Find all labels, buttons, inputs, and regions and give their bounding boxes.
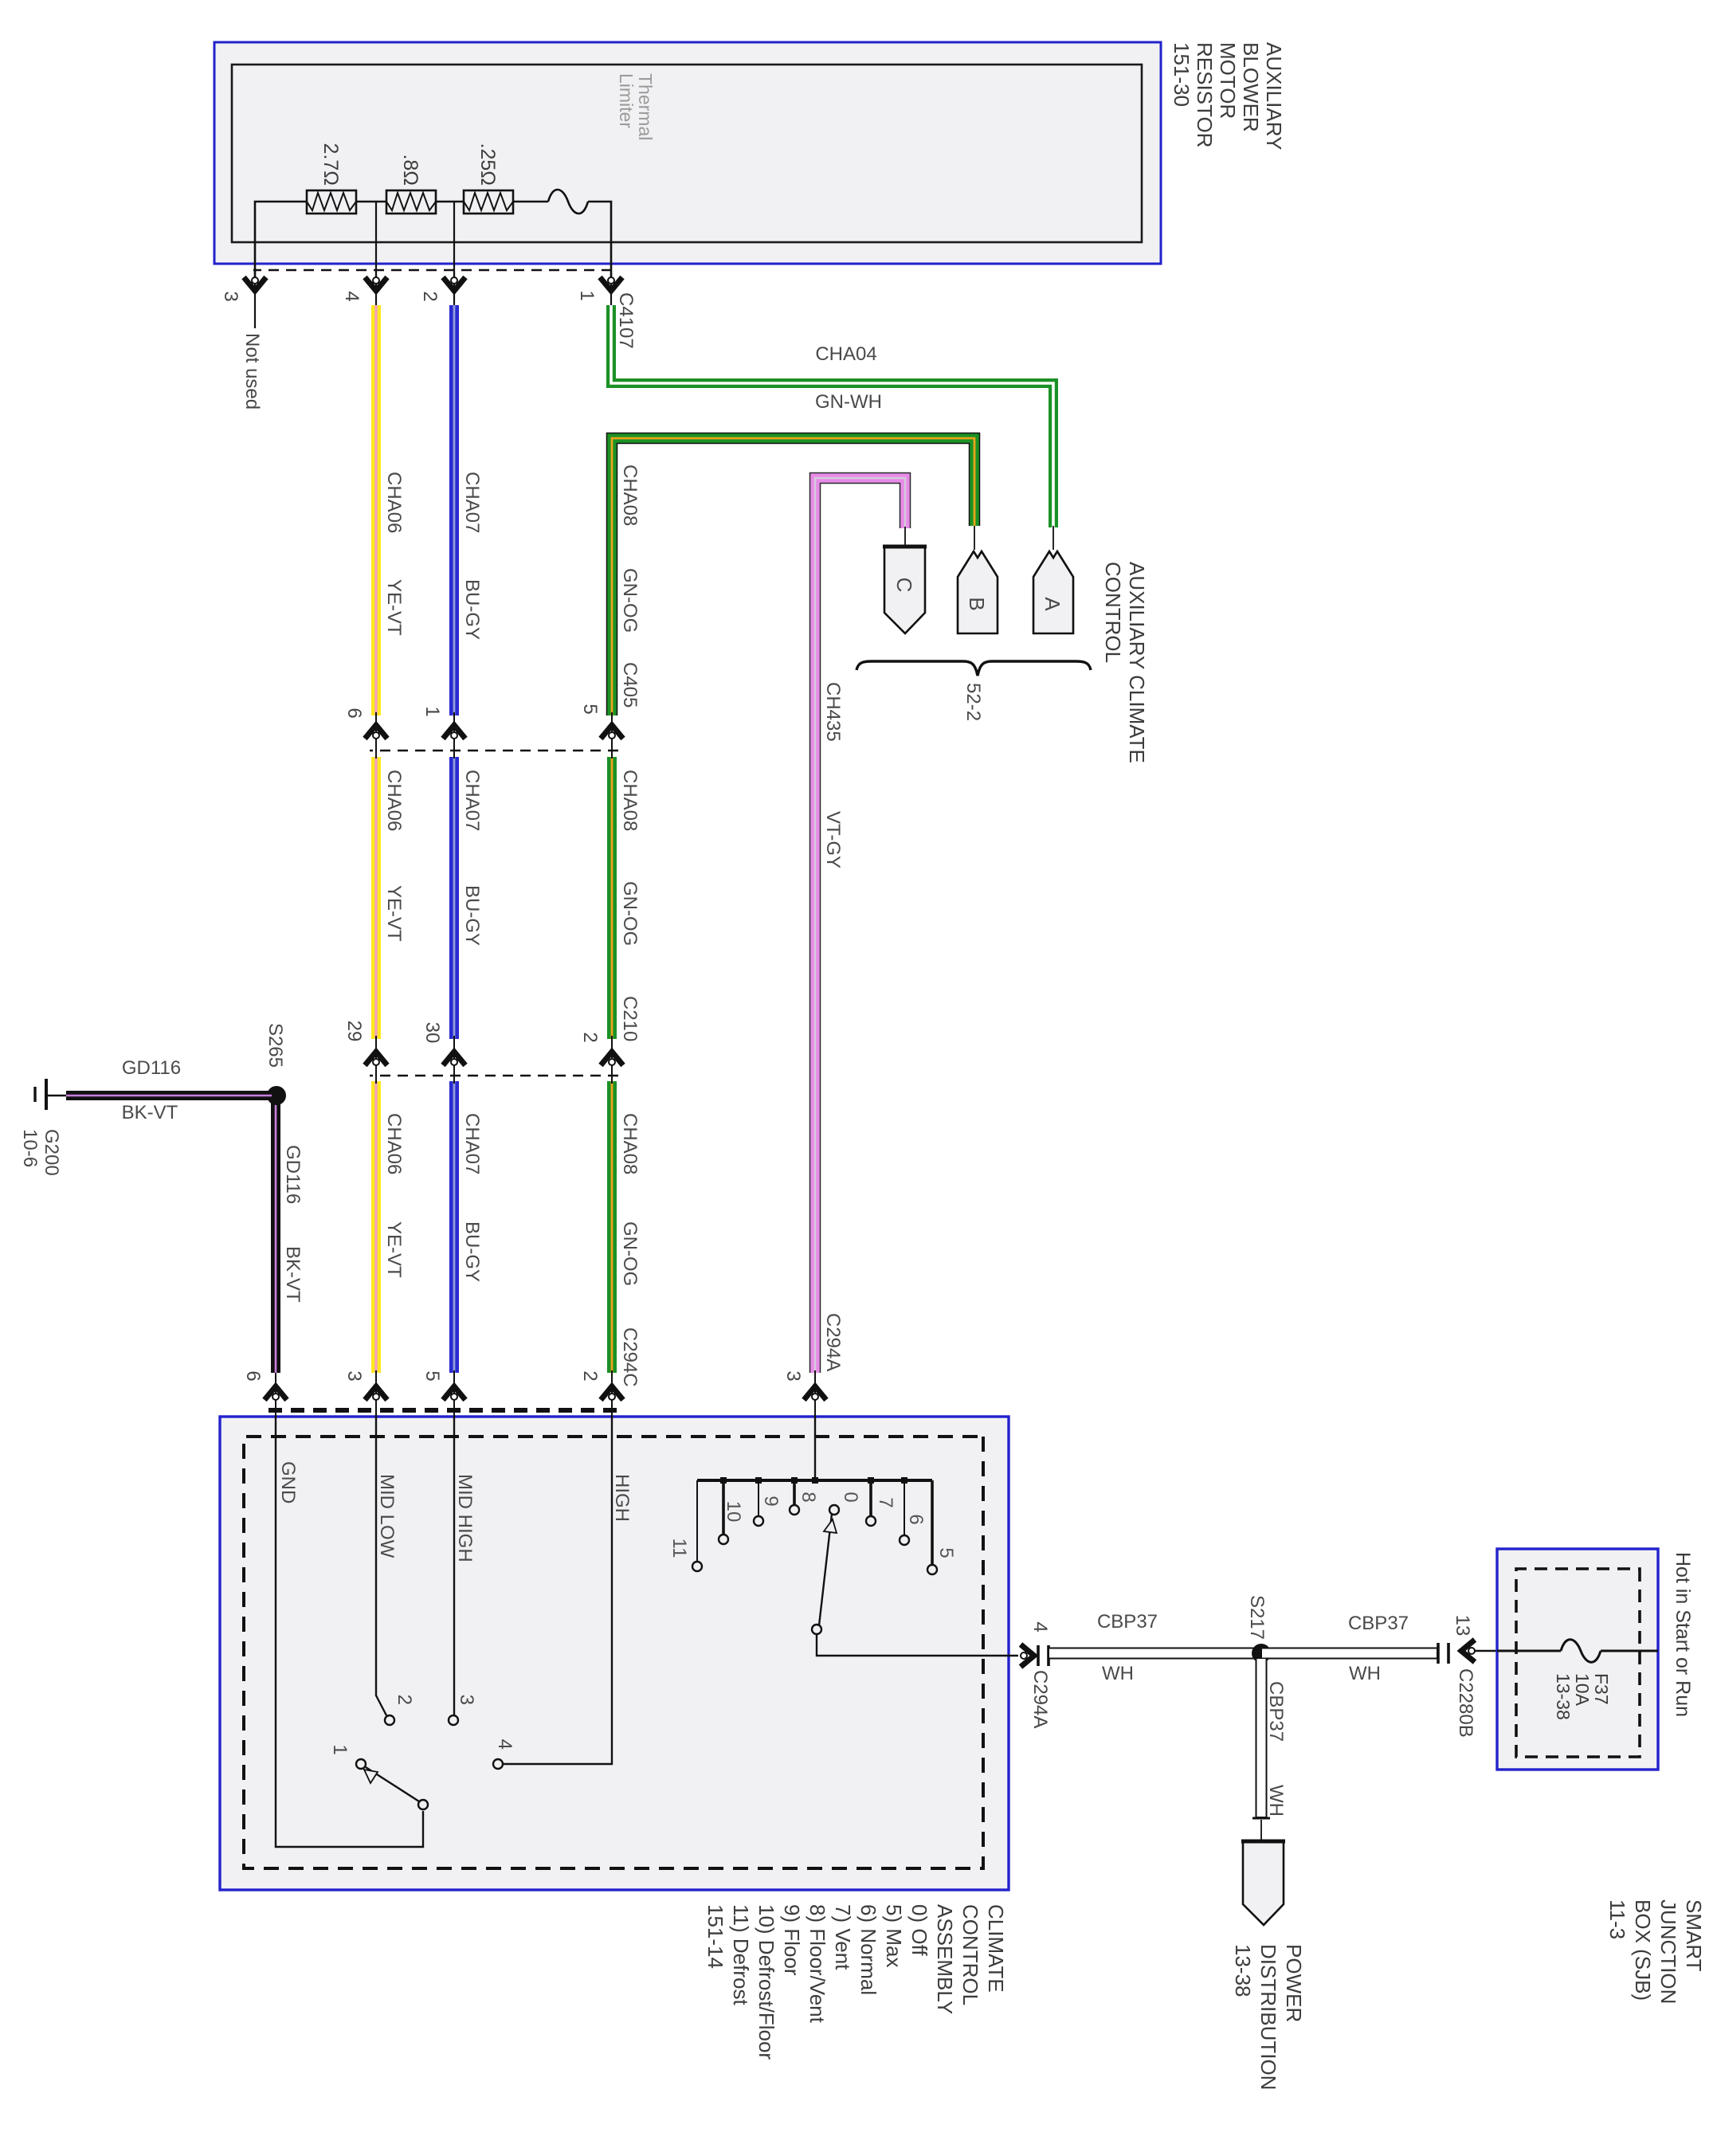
svg-text:CHA07: CHA07 <box>461 1113 483 1174</box>
C2280B pin 13 arrow <box>1461 1640 1475 1662</box>
resistor inner housing box <box>232 65 1142 242</box>
position 9 stub <box>758 1480 759 1515</box>
svg-text:0) Off: 0) Off <box>907 1904 931 1956</box>
svg-text:5: 5 <box>935 1547 957 1558</box>
wire CHA04 GN-WH from pin1 up to connector A <box>611 305 1053 527</box>
wire: tap to pin 2 <box>453 202 455 280</box>
wire CH435 VT-GY to connector C and climate control <box>815 478 905 1373</box>
svg-text:9: 9 <box>760 1495 782 1506</box>
svg-text:.8Ω: .8Ω <box>399 154 421 186</box>
svg-text:GN-WH: GN-WH <box>815 391 882 413</box>
auxiliary blower motor resistor box (blue outline) <box>214 42 1161 264</box>
svg-text:YE-VT: YE-VT <box>383 885 405 942</box>
wire stub pin 2 <box>453 272 455 308</box>
svg-text:2: 2 <box>419 291 441 301</box>
svg-text:5: 5 <box>421 1370 443 1381</box>
svg-text:CBP37: CBP37 <box>1348 1613 1409 1634</box>
wire MID HIGH from pin 5 <box>453 1415 455 1715</box>
svg-text:MID LOW: MID LOW <box>376 1474 398 1558</box>
legend CLIMATE CONTROL ASSEMBLY <box>704 1904 1008 2060</box>
svg-text:CHA06: CHA06 <box>383 1113 405 1174</box>
svg-text:CHA08: CHA08 <box>619 770 641 831</box>
svg-text:Not used: Not used <box>241 333 263 410</box>
svg-text:.25Ω: .25Ω <box>476 143 499 186</box>
connector C210 dashed boundary <box>370 1075 618 1077</box>
svg-text:YE-VT: YE-VT <box>383 579 405 636</box>
wire CHA06 YE-VT segment 3 <box>371 1081 381 1373</box>
svg-text:CHA06: CHA06 <box>383 472 405 533</box>
svg-text:9) Floor: 9) Floor <box>780 1904 804 1976</box>
C210 pin 30 arrow <box>443 1052 465 1065</box>
wire link to connector C <box>904 527 906 548</box>
svg-text:CLIMATE: CLIMATE <box>984 1904 1008 1993</box>
fuse F37 element <box>1561 1640 1601 1663</box>
wire inside SJB above fuse <box>1601 1650 1658 1652</box>
svg-text:B: B <box>965 597 989 610</box>
smart junction box (blue outline) <box>1497 1549 1658 1770</box>
C405 pin 6 arrow <box>365 725 387 739</box>
svg-text:CHA08: CHA08 <box>619 1113 641 1174</box>
svg-text:10: 10 <box>723 1501 744 1523</box>
svg-text:AUXILIARY: AUXILIARY <box>1262 42 1286 150</box>
climate control assembly box (blue outline) <box>220 1417 1009 1890</box>
mode switch arm <box>366 1767 419 1801</box>
svg-text:ASSEMBLY: ASSEMBLY <box>933 1904 957 2014</box>
svg-text:3: 3 <box>220 291 241 301</box>
wire joint blue at C210 <box>453 1036 455 1084</box>
label SMART JUNCTION BOX (SJB) 11-3 <box>1605 1899 1706 2004</box>
svg-text:3: 3 <box>343 1370 365 1381</box>
connector B <box>958 551 998 633</box>
svg-text:C: C <box>892 578 916 593</box>
svg-text:2: 2 <box>394 1695 415 1705</box>
label CHA06 YE-VT seg1 <box>383 465 844 1387</box>
svg-text:CH435: CH435 <box>822 682 844 742</box>
svg-text:5) Max: 5) Max <box>882 1904 906 1967</box>
svg-text:BK-VT: BK-VT <box>282 1246 304 1303</box>
svg-text:6) Normal: 6) Normal <box>856 1904 880 1995</box>
wire joint yellow at C210 <box>375 1036 377 1084</box>
svg-text:30: 30 <box>421 1022 443 1044</box>
svg-text:DISTRIBUTION: DISTRIBUTION <box>1256 1944 1280 2090</box>
svg-text:CBP37: CBP37 <box>1097 1611 1158 1633</box>
C210 pin 29 arrow <box>365 1052 387 1065</box>
wire MID LOW from pin 3 <box>376 1415 386 1715</box>
mode switch contact 1 <box>356 1759 366 1769</box>
wire CHA07 BU-GY segment 1 <box>449 305 459 715</box>
svg-text:MOTOR: MOTOR <box>1216 42 1240 119</box>
label F37 10A 13-38 <box>1553 1673 1612 1720</box>
svg-text:Limiter: Limiter <box>616 73 637 128</box>
svg-text:BU-GY: BU-GY <box>461 579 483 640</box>
svg-text:10A: 10A <box>1572 1673 1593 1707</box>
resistor 2.7 ohm <box>307 190 356 214</box>
svg-text:WH: WH <box>1349 1663 1381 1684</box>
connector face bars at C2280B <box>1437 1643 1440 1664</box>
svg-text:MID HIGH: MID HIGH <box>454 1474 476 1562</box>
svg-text:YE-VT: YE-VT <box>383 1221 405 1278</box>
svg-text:2.7Ω: 2.7Ω <box>319 143 342 186</box>
wire CHA06 YE-VT segment 2 <box>371 757 381 1039</box>
wire CBP37 WH branch from S217 to power distribution <box>1256 1658 1268 1818</box>
svg-text:CBP37: CBP37 <box>1265 1681 1287 1742</box>
svg-text:GN-OG: GN-OG <box>619 1221 641 1286</box>
climate control inner dashed box <box>244 1437 983 1868</box>
svg-text:CHA07: CHA07 <box>461 770 483 831</box>
position 5 stub <box>931 1480 934 1564</box>
svg-text:VT-GY: VT-GY <box>822 811 844 868</box>
wire: tap to pin 4 <box>375 202 377 280</box>
position 11 stub <box>696 1480 698 1561</box>
svg-text:CONTROL: CONTROL <box>1101 562 1125 663</box>
svg-text:8) Floor/Vent: 8) Floor/Vent <box>806 1904 829 2024</box>
fan switch feed from violet wire <box>814 1415 816 1480</box>
wire link to connector B <box>974 526 975 550</box>
svg-text:S265: S265 <box>265 1023 286 1068</box>
wire from SJB to arrow <box>1474 1650 1497 1652</box>
svg-text:1: 1 <box>576 290 598 300</box>
wire CHA06 YE-VT segment 1 <box>371 305 381 715</box>
wiper output wire to pin 4 <box>817 1634 1018 1656</box>
svg-text:BU-GY: BU-GY <box>461 1221 483 1282</box>
svg-text:6: 6 <box>905 1514 927 1524</box>
svg-text:1: 1 <box>329 1744 351 1754</box>
splice S265 <box>267 1086 286 1105</box>
wire joint yellow at C294C <box>375 1370 377 1415</box>
label POWER DISTRIBUTION 13-38 <box>1231 1944 1306 2090</box>
wire stub pin 4 <box>375 272 377 308</box>
wire CHA07 BU-GY segment 3 <box>449 1081 459 1373</box>
svg-text:3: 3 <box>456 1695 477 1705</box>
svg-text:BK-VT: BK-VT <box>122 1102 178 1123</box>
svg-text:4: 4 <box>341 291 363 301</box>
SJB inner dashed box <box>1516 1569 1640 1757</box>
svg-text:6: 6 <box>343 708 365 718</box>
wire joint green at C294C <box>611 1370 613 1415</box>
svg-text:GD116: GD116 <box>282 1145 304 1204</box>
splice S217 <box>1252 1644 1271 1663</box>
svg-text:BOX (SJB): BOX (SJB) <box>1631 1899 1655 2001</box>
svg-text:7) Vent: 7) Vent <box>831 1904 855 1970</box>
svg-text:13-38: 13-38 <box>1231 1944 1255 1997</box>
pin 4 arrow out of climate box <box>1021 1644 1034 1667</box>
mode switch arm tip contact <box>418 1800 428 1809</box>
C405 pin 5 arrow <box>601 725 623 739</box>
position 6 stub <box>904 1480 905 1535</box>
C294A pin 3 arrow <box>804 1386 826 1400</box>
svg-text:GN-OG: GN-OG <box>619 881 641 946</box>
connector C4107 dashed boundary <box>253 269 612 272</box>
wire CHA08 GN-OG segment 2 <box>607 757 617 1039</box>
svg-text:5: 5 <box>579 704 601 714</box>
svg-text:3: 3 <box>782 1370 804 1381</box>
svg-text:HIGH: HIGH <box>611 1474 633 1522</box>
connector C294C thick dashed boundary <box>268 1408 617 1413</box>
svg-text:6: 6 <box>242 1370 264 1381</box>
C405 pin 1 arrow <box>443 725 465 739</box>
svg-text:AUXILIARY CLIMATE: AUXILIARY CLIMATE <box>1125 562 1149 763</box>
wire GND from pin 6 <box>276 1415 423 1847</box>
C210 pin 2 arrow <box>601 1052 623 1065</box>
wire link to power distribution connector <box>1260 1820 1262 1841</box>
svg-text:13-38: 13-38 <box>1553 1673 1574 1720</box>
connector face bars at pin 4 <box>1037 1645 1040 1666</box>
wire link to connector A <box>1052 526 1054 550</box>
svg-text:GD116: GD116 <box>122 1057 181 1079</box>
svg-text:G200: G200 <box>41 1129 62 1176</box>
svg-text:WH: WH <box>1265 1785 1287 1817</box>
svg-text:POWER: POWER <box>1282 1944 1306 2022</box>
wire stub pin 3 not used <box>254 272 256 328</box>
svg-text:151-30: 151-30 <box>1170 42 1194 107</box>
ground G200 symbol <box>46 1095 66 1096</box>
svg-text:11: 11 <box>668 1539 690 1558</box>
svg-text:GND: GND <box>277 1461 299 1503</box>
wire HIGH from pin 2 <box>504 1415 612 1764</box>
svg-text:7: 7 <box>875 1497 896 1507</box>
wire stub pin 1 <box>610 272 612 308</box>
svg-text:C4107: C4107 <box>615 292 637 349</box>
wire joint green at C210 <box>611 1036 613 1084</box>
pin 2 arrow <box>443 277 465 291</box>
brace 52-2 <box>856 661 1091 676</box>
svg-text:JUNCTION: JUNCTION <box>1656 1899 1680 2004</box>
wire GD116 BK-VT from S265 to C294C pin 6 <box>271 1096 280 1373</box>
svg-text:C294A: C294A <box>1029 1670 1051 1728</box>
svg-text:C405: C405 <box>619 662 641 708</box>
wire CHA08 GN-OG segment 1 with riser to connector B <box>612 438 974 715</box>
svg-text:1: 1 <box>421 706 443 716</box>
wire joint ground at C294C <box>275 1370 276 1415</box>
svg-text:13: 13 <box>1452 1615 1473 1637</box>
pin 1 arrow <box>600 277 622 291</box>
wire CHA08 GN-OG segment 3 <box>607 1081 617 1373</box>
svg-text:Thermal: Thermal <box>635 73 656 140</box>
svg-text:WH: WH <box>1102 1663 1134 1684</box>
svg-text:52-2: 52-2 <box>962 683 984 721</box>
svg-text:Hot in Start or Run: Hot in Start or Run <box>1672 1552 1694 1717</box>
svg-text:11-3: 11-3 <box>1605 1899 1629 1939</box>
svg-text:0: 0 <box>840 1492 861 1502</box>
svg-text:GN-OG: GN-OG <box>619 568 641 633</box>
svg-text:10) Defrost/Floor: 10) Defrost/Floor <box>755 1904 778 2060</box>
title AUXILIARY BLOWER MOTOR RESISTOR 151-30 <box>1170 42 1286 150</box>
svg-text:CHA08: CHA08 <box>619 465 641 526</box>
pin 4 arrow <box>365 277 387 291</box>
svg-text:C2280B: C2280B <box>1455 1668 1476 1738</box>
wire joint yellow at C405 <box>375 712 377 759</box>
pin 3 arrow <box>244 277 266 291</box>
resistor .25 ohm <box>464 190 513 214</box>
svg-text:S217: S217 <box>1246 1595 1268 1640</box>
position 8 stub <box>793 1480 796 1504</box>
svg-text:CONTROL: CONTROL <box>958 1904 982 2005</box>
svg-text:CHA04: CHA04 <box>815 343 876 365</box>
connector C <box>884 547 925 633</box>
wire CBP37 WH from S217 to C2280B <box>1261 1648 1437 1660</box>
svg-text:4: 4 <box>1029 1621 1051 1632</box>
C294C pin 2 arrow <box>601 1386 623 1400</box>
svg-text:8: 8 <box>798 1492 819 1502</box>
position 10 stub <box>722 1480 725 1534</box>
svg-text:CHA06: CHA06 <box>383 770 405 831</box>
wire joint green at C405 <box>611 712 613 759</box>
svg-text:C294A: C294A <box>822 1313 844 1371</box>
svg-text:11) Defrost: 11) Defrost <box>729 1904 753 2005</box>
svg-text:4: 4 <box>494 1739 515 1750</box>
C294C pin 5 arrow <box>443 1386 465 1400</box>
resistor .8 ohm <box>386 190 436 214</box>
fan switch bus bar <box>697 1479 932 1482</box>
wire CHA07 BU-GY segment 2 <box>449 757 459 1039</box>
svg-text:151-14: 151-14 <box>704 1904 727 1969</box>
wire inside SJB below fuse <box>1497 1650 1561 1652</box>
svg-text:10-6: 10-6 <box>19 1129 41 1167</box>
C294C pin 6 arrow <box>265 1386 287 1400</box>
svg-text:2: 2 <box>579 1032 601 1042</box>
svg-text:F37: F37 <box>1591 1673 1612 1705</box>
wire joint blue at C294C <box>453 1370 455 1415</box>
connector A <box>1033 551 1073 633</box>
svg-text:2: 2 <box>579 1370 601 1381</box>
thermal limiter element <box>548 190 588 214</box>
svg-text:SMART: SMART <box>1682 1899 1706 1972</box>
fan switch wiper arm <box>819 1514 832 1625</box>
svg-text:BLOWER: BLOWER <box>1239 42 1263 132</box>
wire CBP37 WH from C294A pin4 to S217 <box>1049 1648 1261 1660</box>
wire end cap <box>1252 1817 1270 1820</box>
wire: internal resistor chain <box>255 202 611 280</box>
svg-text:C210: C210 <box>619 996 641 1041</box>
svg-text:29: 29 <box>343 1021 365 1042</box>
position 7 stub <box>869 1480 872 1515</box>
wire joint blue at C405 <box>453 712 455 759</box>
svg-text:C294C: C294C <box>619 1327 641 1387</box>
wire GD116 BK-VT drop to ground <box>66 1091 272 1100</box>
svg-text:CHA07: CHA07 <box>461 472 483 533</box>
position 0 wiper pivot <box>829 1505 839 1515</box>
svg-text:BU-GY: BU-GY <box>461 885 483 946</box>
connector C405 dashed boundary <box>370 750 618 752</box>
bus junction squares <box>901 1477 907 1484</box>
svg-text:RESISTOR: RESISTOR <box>1193 42 1217 147</box>
wire joint violet at C294A <box>814 1370 816 1415</box>
svg-text:A: A <box>1041 597 1064 611</box>
power distribution connector <box>1243 1841 1284 1925</box>
C294C pin 3 arrow <box>365 1386 387 1400</box>
